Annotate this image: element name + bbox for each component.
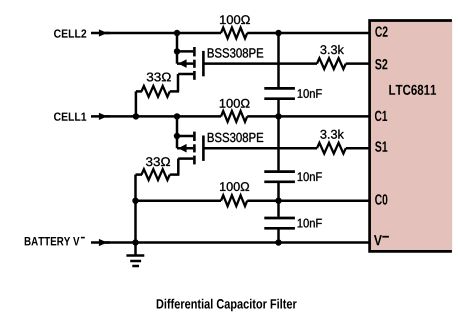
pin C0 label [375,194,387,204]
label 33Ω (lower) [146,157,170,166]
label 3.3k [320,45,344,54]
input arrow BATTERY V- [91,241,110,244]
label 10nF [298,89,322,98]
resistor 100Ω (C0) [221,195,247,206]
wire R 33Ω left lead [136,90,142,93]
wire R 3.3k to pin S2 [346,62,370,65]
pin V- label [374,235,389,245]
caption: Differential Capacitor Filter [157,299,297,312]
wire capacitor to C1 node [277,100,280,117]
resistor 3.3k (S2) [317,58,346,69]
wire C0 rail from battery-chain node [136,199,222,202]
label 100Ω [220,99,250,108]
wire Q2 gate to R 3.3k [205,62,318,65]
label 100Ω [220,182,249,191]
capacitor 10nF (C2-C1) [264,88,295,98]
node: C2/capacitor chain junction [275,30,281,36]
label 33Ω (upper) [147,73,171,82]
pin S1 label [375,141,387,151]
wire C1 node down to capacitor [277,116,280,170]
wire capacitor to C0 node [277,183,280,201]
capacitor 10nF (C0-V-) [264,218,295,228]
node: CELL2/Q2 source junction [174,30,180,36]
wire CELL1 to R 100Ω [105,115,221,118]
node: C0/capacitor chain junction [275,198,281,204]
node: CELL1/Q1 source junction [174,113,180,119]
pin S2 label [375,59,387,69]
resistor 100Ω (CELL1-C1) [221,111,247,122]
wire R 33Ω down to CELL1 [135,91,138,116]
IC U1 name label LTC6811 [389,85,436,95]
node: battery/ground junction [132,239,138,245]
wire R 33Ω right lead [170,90,179,93]
label 100Ω [220,15,250,24]
resistor 100Ω (CELL2-C2) [221,28,247,39]
node: Q1 source/body junction [174,133,180,139]
wire R 100Ω to pin C0 [247,199,369,202]
wire R 33Ω right lead [170,173,180,176]
wire R 3.3k to pin S1 [346,147,370,150]
wire Q2 drain down to R 33Ω [177,74,180,91]
label CELL2 [54,29,86,37]
input arrow CELL2 [91,32,110,35]
node: V-/capacitor chain junction [275,239,281,245]
node: 33Ω/CELL1 junction [133,113,139,119]
pin C2 label [375,26,387,36]
wire BATTERY V- to pin V- [105,241,370,244]
resistor 3.3k (S1) [317,143,346,154]
node: C1/capacitor chain junction [275,113,281,119]
resistor 33Ω (Q1 drain) [142,169,170,180]
label BATTERY V- [25,237,85,245]
node: battery-chain/C0 junction [132,198,138,204]
node: Q2 source/body junction [174,48,180,54]
IC U1 LTC6811 body [370,21,453,252]
transistor Q2 BSS308PE (P-channel MOSFET) [176,47,203,80]
label BSS308PE (Q1) [208,133,263,142]
pin C1 label [375,111,387,121]
label 3.3k [320,130,344,139]
label 10nF [298,219,322,228]
ground symbol [126,243,144,267]
label BSS308PE (Q2) [208,48,263,57]
wire CELL2 to R 100Ω [105,32,221,35]
wire C2 node down to capacitor [277,33,280,87]
wire CELL2 node down to Q2 source/body [176,33,179,64]
input arrow CELL1 [91,115,110,118]
wire C0 node down to capacitor [277,201,280,217]
wire Q1 gate to R 3.3k [205,147,318,150]
wire 33Ω down through C0 node to battery rail [134,175,137,243]
wire R 100Ω to pin C1 [247,115,369,118]
resistor 33Ω (Q2 drain) [142,86,170,97]
capacitor 10nF (C1-C0) [264,172,295,182]
wire Q1 drain down to R 33Ω [177,159,180,175]
wire R 100Ω to pin C2 [247,32,369,35]
wire capacitor to V- rail [277,230,280,243]
wire CELL1 node down to Q1 source/body [176,116,179,148]
label 10nF [298,172,322,181]
transistor Q1 BSS308PE (P-channel MOSFET) [176,132,203,165]
label CELL1 [54,112,86,120]
wire R 33Ω left lead [136,173,143,176]
